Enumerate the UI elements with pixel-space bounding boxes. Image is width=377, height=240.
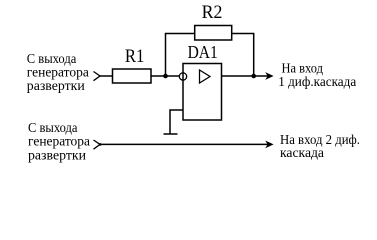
svg-text:R2: R2 xyxy=(202,2,223,23)
svg-text:С выхода: С выхода xyxy=(28,121,78,136)
wire: input terminal 2 to diff cascade input 2 xyxy=(100,143,268,145)
wire: feedback top left segment to R2 xyxy=(165,33,195,35)
label R2 xyxy=(202,2,223,23)
node: label "С выхода генератора развертки" (input 2) xyxy=(28,121,91,164)
wire: input terminal 1 to R1 left lead xyxy=(99,75,113,77)
ground xyxy=(164,133,178,135)
svg-text:DA1: DA1 xyxy=(188,42,218,62)
resistor R2 xyxy=(195,26,232,41)
node: label "С выхода генератора развертки" (input 1) xyxy=(27,52,90,94)
node: input terminal 2 (open arrowhead from sweep generator) xyxy=(94,140,102,149)
svg-text:R1: R1 xyxy=(125,46,144,67)
wire: DA1 non-inverting input to ground xyxy=(170,110,183,134)
node: label "На вход 1 диф.каскада" (output 1) xyxy=(278,61,357,89)
node: input terminal 1 (open arrowhead from sweep generator) xyxy=(94,72,101,81)
node: output junction with feedback xyxy=(251,74,256,79)
svg-text:развертки: развертки xyxy=(28,148,86,163)
op-amp DA1 inverting input bubble xyxy=(179,73,186,80)
node: arrowhead to diff cascade input 2 xyxy=(265,141,273,149)
svg-text:каскада: каскада xyxy=(280,146,325,161)
node: arrowhead to diff cascade input 1 xyxy=(265,72,273,80)
wire: R2 right lead to output riser xyxy=(232,33,255,35)
op-amp U1 DA1 body xyxy=(183,64,222,121)
wire: R1 right lead to DA1 inverting input xyxy=(151,75,179,77)
wire: DA1 output to diff cascade input 1 xyxy=(222,75,269,77)
resistor R1 xyxy=(113,69,152,83)
node: label "На вход 2 диф. каскада" (output 2) xyxy=(280,133,360,161)
svg-text:1 диф.каскада: 1 диф.каскада xyxy=(278,75,357,90)
op-amp DA1 amplifier triangle symbol xyxy=(200,70,211,83)
svg-text:генератора: генератора xyxy=(28,135,91,150)
node: junction of R1, R2 feedback and DA1 input xyxy=(163,74,168,79)
label DA1 xyxy=(188,42,218,62)
label R1 xyxy=(125,46,144,67)
wire: feedback riser from input junction up xyxy=(165,34,167,77)
svg-text:развертки: развертки xyxy=(27,79,85,94)
wire: feedback riser down to output node xyxy=(253,34,255,77)
